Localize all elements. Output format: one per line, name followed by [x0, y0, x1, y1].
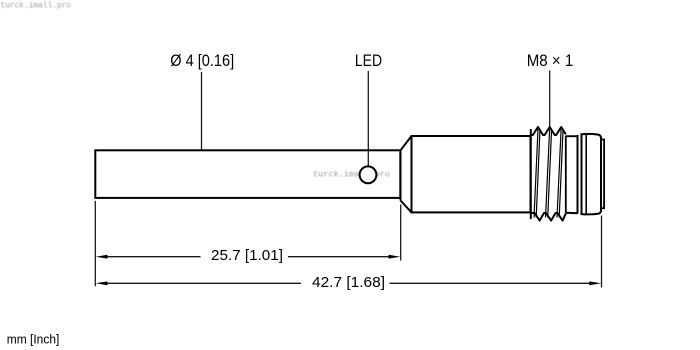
- chamfer cone: [401, 136, 412, 212]
- svg-text:M8 × 1: M8 × 1: [527, 52, 574, 70]
- connector end ring: [601, 140, 604, 209]
- connector collar section: [566, 135, 578, 214]
- thread section left edge: [530, 129, 532, 219]
- dimension line 25.7: [107, 256, 390, 258]
- leader line Ø4: [201, 72, 203, 150]
- sensor body: [412, 136, 531, 212]
- svg-text:turck.imall.pro: turck.imall.pro: [313, 169, 390, 179]
- barrel tube: [95, 150, 400, 198]
- svg-text:LED: LED: [355, 52, 382, 70]
- thread flank lines: [534, 130, 563, 218]
- connector nut inner line: [585, 134, 587, 214]
- thread top crests: [531, 127, 566, 135]
- leader line M8: [549, 71, 551, 129]
- arrow dim2 left: [96, 281, 108, 285]
- extension line left: [94, 201, 96, 286]
- arrow dim1 left: [96, 255, 108, 259]
- arrow dim2 right: [589, 281, 601, 285]
- leader line LED: [367, 71, 369, 166]
- dimension line 42.7: [107, 282, 590, 284]
- extension line middle: [400, 205, 402, 261]
- LED window circle: [360, 166, 377, 183]
- svg-text:42.7 [1.68]: 42.7 [1.68]: [312, 275, 385, 291]
- thread right edge: [565, 136, 567, 213]
- connector nut ring: [582, 134, 602, 215]
- svg-text:mm [Inch]: mm [Inch]: [7, 332, 60, 347]
- svg-text:turck.imall.pro: turck.imall.pro: [1, 0, 72, 10]
- svg-text:25.7 [1.01]: 25.7 [1.01]: [211, 248, 283, 264]
- svg-text:Ø 4 [0.16]: Ø 4 [0.16]: [170, 52, 234, 70]
- thread bottom crests: [531, 213, 566, 221]
- arrow dim1 right: [389, 255, 401, 259]
- extension line right: [601, 216, 603, 288]
